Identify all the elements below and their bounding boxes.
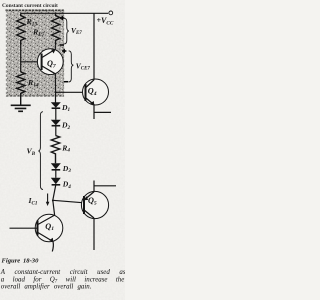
resistor RE7 <box>32 13 60 45</box>
wire: node to Q5 base <box>52 200 84 203</box>
svg-text:overall amplifier overall gain: overall amplifier overall gain. <box>1 284 92 291</box>
wire: Q4 emitter to output <box>94 105 111 119</box>
transistor Q5 <box>81 191 108 218</box>
svg-text:A constant-current circuit use: A constant-current circuit used as <box>0 269 125 276</box>
wire: R13 bottom to R14 top <box>20 45 22 72</box>
wire: Q1 base lead <box>10 227 38 229</box>
caption: body text <box>0 269 126 291</box>
wire: Q4 base wire <box>55 91 86 93</box>
wire: Q5 emitter to top stub <box>94 181 116 192</box>
wire: +Vcc top rail <box>21 12 109 14</box>
wire: D1 to D2 <box>55 108 57 120</box>
svg-text:Constant current circuit: Constant current circuit <box>2 3 58 9</box>
transistor Q7 <box>37 49 63 75</box>
wire: D4 down to Q1 collector <box>53 185 56 215</box>
diode D1 <box>51 102 71 113</box>
wire: Q7 collector down to diode chain <box>54 74 56 103</box>
constant current circuit dashed box <box>6 10 65 97</box>
transistor Q1 <box>35 214 63 242</box>
brace and label VB <box>27 112 44 190</box>
caption: figure number <box>2 258 40 265</box>
current label IC1 with arrow <box>28 194 50 207</box>
brace and label VE7 <box>60 16 83 45</box>
wire: D3 to D4 <box>55 170 57 178</box>
wire: RE7 to Q7 emitter <box>54 45 56 49</box>
brace and label VCE7 <box>62 49 90 82</box>
diode D4 <box>51 178 71 190</box>
resistor R13 <box>17 13 38 45</box>
title: Constant current circuit <box>2 3 58 9</box>
terminal +Vcc <box>97 11 114 27</box>
wire: D2 to R4 <box>55 126 57 136</box>
resistor R14 <box>17 72 39 105</box>
wire: Q4 collector up to rail <box>93 13 95 80</box>
wire: Q1 emitter tail <box>52 242 53 252</box>
svg-text:Figure: Figure <box>2 258 21 265</box>
diode D2 <box>51 120 71 131</box>
diode D3 <box>51 163 71 174</box>
transistor Q4 <box>83 79 109 105</box>
wire: Q7 base wire <box>21 61 41 63</box>
svg-text:18-30: 18-30 <box>23 258 39 265</box>
wire: Q5 collector down <box>93 218 95 250</box>
ground <box>11 105 31 111</box>
resistor R4 <box>51 136 70 164</box>
